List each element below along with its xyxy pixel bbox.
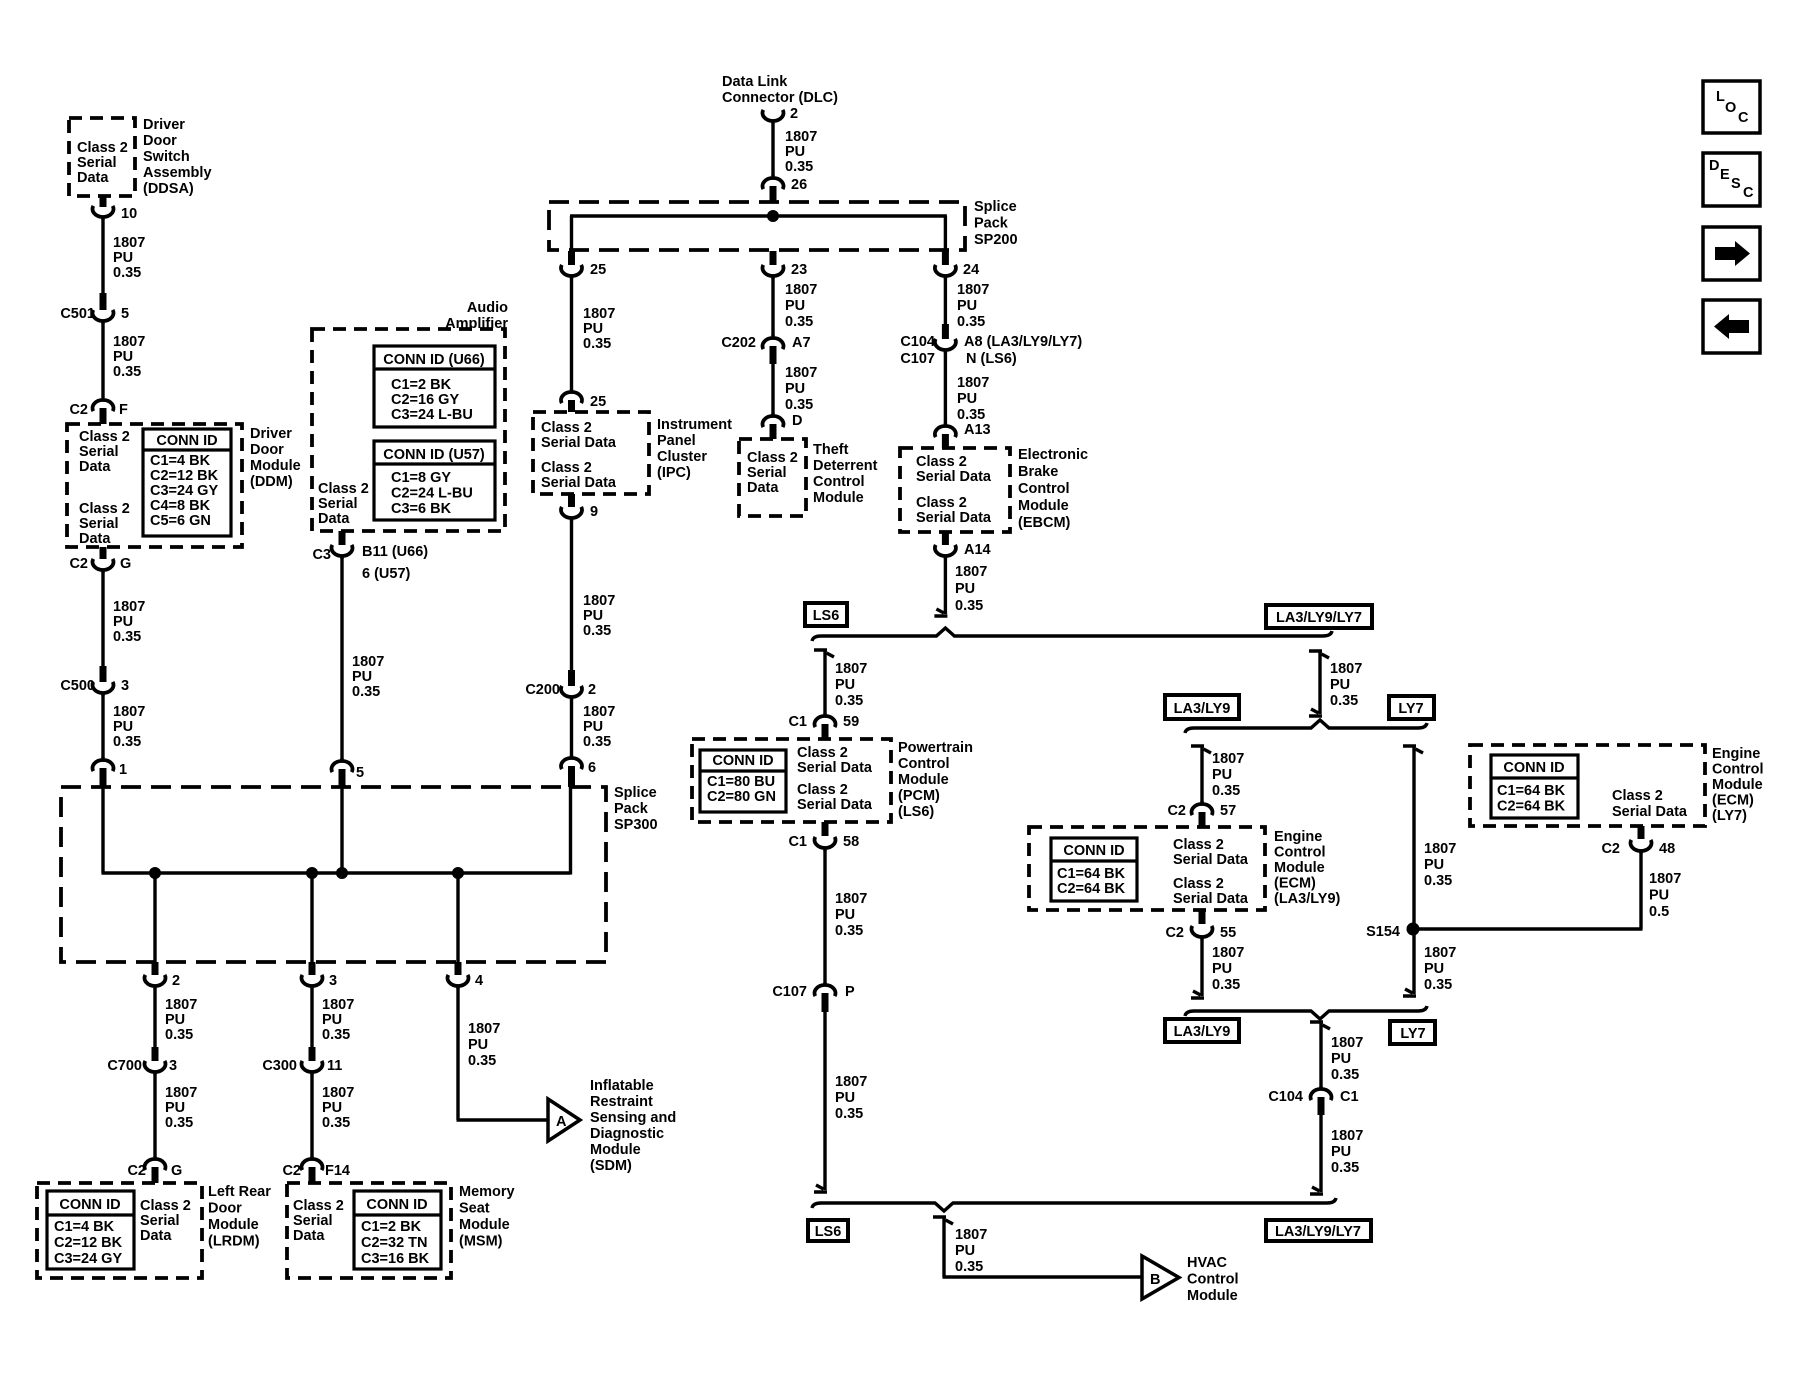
svg-text:C2: C2 (1601, 841, 1620, 857)
tag box LA3/LY9 (bottom) (1165, 1019, 1239, 1042)
svg-text:PU: PU (785, 144, 805, 160)
svg-text:(ECM): (ECM) (1274, 876, 1316, 892)
wire 1807 PU 0.35 from C1-58 to C107-P (823, 850, 826, 983)
svg-text:Module: Module (813, 490, 864, 506)
svg-text:Serial: Serial (77, 155, 117, 171)
tag box LA3/LY9 (mid) (1165, 695, 1239, 719)
svg-text:Module: Module (250, 458, 301, 474)
svg-text:0.35: 0.35 (113, 265, 141, 281)
svg-text:Class 2: Class 2 (1173, 837, 1224, 853)
svg-text:Module: Module (590, 1142, 641, 1158)
connector C2 pin F into DDM (93, 400, 114, 411)
svg-text:Serial: Serial (79, 444, 119, 460)
svg-text:0.35: 0.35 (352, 684, 380, 700)
svg-text:Instrument: Instrument (657, 417, 732, 433)
svg-text:PU: PU (785, 298, 805, 314)
svg-text:PU: PU (955, 581, 975, 597)
svg-text:Control: Control (898, 756, 950, 772)
svg-text:1807: 1807 (583, 306, 615, 322)
svg-text:26: 26 (791, 177, 807, 193)
svg-text:Electronic: Electronic (1018, 447, 1088, 463)
svg-text:0.5: 0.5 (1649, 904, 1669, 920)
svg-text:0.35: 0.35 (1424, 977, 1452, 993)
wire 1807 PU 0.35 from SP200-23 to C202 (771, 278, 774, 336)
svg-text:Serial: Serial (140, 1213, 180, 1229)
svg-text:Cluster: Cluster (657, 449, 707, 465)
svg-text:PU: PU (468, 1037, 488, 1053)
tag box LY7 (bottom) (1390, 1021, 1435, 1044)
svg-text:C2: C2 (69, 402, 88, 418)
svg-text:1807: 1807 (957, 375, 989, 391)
svg-text:C: C (1738, 110, 1749, 126)
svg-text:Class 2: Class 2 (916, 495, 967, 511)
connector pin 24 below SP200 (942, 251, 949, 265)
svg-text:N (LS6): N (LS6) (966, 351, 1017, 367)
connector pin A14 below EBCM (942, 532, 949, 545)
svg-text:1807: 1807 (352, 654, 384, 670)
svg-text:0.35: 0.35 (957, 314, 985, 330)
svg-text:Pack: Pack (614, 801, 649, 817)
svg-text:C300: C300 (262, 1058, 297, 1074)
connector C104/C107 pin A8/N (942, 324, 949, 339)
wire 1807 PU 0.35 from C700 to LRDM C2-G (153, 1074, 156, 1157)
svg-text:59: 59 (843, 714, 859, 730)
svg-text:C1=2 BK: C1=2 BK (361, 1219, 422, 1235)
svg-text:11: 11 (327, 1058, 342, 1074)
svg-text:A: A (556, 1114, 567, 1130)
svg-text:0.35: 0.35 (1331, 1160, 1359, 1176)
svg-text:LY7: LY7 (1400, 1026, 1425, 1042)
junction dot SP300 pin5 (336, 867, 348, 879)
svg-text:Module: Module (1187, 1288, 1238, 1304)
svg-text:1807: 1807 (785, 365, 817, 381)
wire end hook at brace (934, 609, 947, 616)
svg-text:1807: 1807 (1649, 871, 1681, 887)
svg-text:1807: 1807 (1424, 945, 1456, 961)
svg-text:0.35: 0.35 (113, 734, 141, 750)
svg-text:1807: 1807 (957, 282, 989, 298)
svg-text:(LRDM): (LRDM) (208, 1234, 260, 1250)
svg-text:PU: PU (322, 1100, 342, 1116)
connector pin 2 below SP300 (152, 962, 159, 975)
svg-text:(LS6): (LS6) (898, 804, 934, 820)
wire 1807 PU 0.35 from S154 to lower brace (1412, 929, 1415, 994)
svg-text:6: 6 (588, 760, 596, 776)
svg-text:HVAC: HVAC (1187, 1255, 1228, 1271)
svg-text:Serial Data: Serial Data (916, 469, 992, 485)
svg-text:4: 4 (475, 973, 483, 989)
module DDSA box (69, 118, 135, 196)
svg-text:Class 2: Class 2 (541, 460, 592, 476)
connector pin 26 into SP200 (763, 178, 784, 189)
connector pin 10 on DDSA (100, 196, 107, 207)
svg-text:F14: F14 (325, 1163, 350, 1179)
svg-text:58: 58 (843, 834, 859, 850)
svg-text:PU: PU (1649, 888, 1669, 904)
svg-text:S: S (1731, 176, 1741, 192)
connector DLC pin 2 (763, 110, 784, 121)
CONN ID (U57) table (374, 441, 495, 520)
connector C2 pin G into LRDM (145, 1159, 166, 1170)
CONN ID table of ECM LA3/LY9 (1051, 838, 1137, 901)
svg-text:0.35: 0.35 (165, 1027, 193, 1043)
svg-text:1807: 1807 (1330, 661, 1362, 677)
svg-text:1807: 1807 (1331, 1128, 1363, 1144)
svg-text:Data: Data (79, 531, 111, 547)
tag box LA3/LY9/LY7 (bottom) (1266, 1220, 1371, 1241)
svg-text:1807: 1807 (583, 704, 615, 720)
svg-text:C2=80 GN: C2=80 GN (707, 789, 776, 805)
svg-text:2: 2 (790, 106, 798, 122)
svg-text:1807: 1807 (835, 891, 867, 907)
svg-text:A7: A7 (792, 335, 811, 351)
wire 1807 PU 0.35 from C2-55 to lower brace (1200, 939, 1203, 996)
svg-text:(PCM): (PCM) (898, 788, 940, 804)
svg-text:Pack: Pack (974, 216, 1009, 232)
svg-text:1807: 1807 (113, 235, 145, 251)
svg-text:LA3/LY9: LA3/LY9 (1174, 1024, 1231, 1040)
svg-text:F: F (119, 402, 128, 418)
svg-text:Data: Data (140, 1228, 172, 1244)
brace merging LS6 and LA3/LY9/LY7 to HVAC (812, 1198, 1336, 1211)
module Theft Deterrent Control Module box (739, 439, 806, 516)
svg-text:PU: PU (322, 1012, 342, 1028)
wire 1807 PU 0.35 from SP200-25 to IPC pin 25 (570, 278, 573, 390)
svg-text:G: G (120, 556, 131, 572)
connector C200 pin 2 (568, 670, 575, 686)
svg-text:Serial: Serial (747, 465, 787, 481)
svg-text:PU: PU (1212, 767, 1232, 783)
svg-text:0.35: 0.35 (322, 1027, 350, 1043)
svg-text:(MSM): (MSM) (459, 1234, 503, 1250)
connector C2 pin F14 into MSM (302, 1159, 323, 1170)
svg-text:Engine: Engine (1712, 746, 1760, 762)
CONN ID table of PCM (700, 750, 786, 812)
svg-text:D: D (792, 413, 802, 429)
svg-text:Serial: Serial (79, 516, 119, 532)
svg-text:Door: Door (250, 442, 284, 458)
svg-text:0.35: 0.35 (1212, 783, 1240, 799)
svg-text:Serial Data: Serial Data (797, 760, 873, 776)
svg-text:PU: PU (785, 381, 805, 397)
svg-text:CONN ID: CONN ID (1063, 843, 1124, 859)
svg-text:C501: C501 (60, 306, 95, 322)
svg-text:1807: 1807 (835, 1074, 867, 1090)
CONN ID table of MSM (354, 1191, 441, 1269)
CONN ID (U66) table (374, 346, 495, 427)
svg-text:L: L (1716, 89, 1725, 105)
svg-text:1807: 1807 (468, 1021, 500, 1037)
svg-text:CONN ID: CONN ID (156, 433, 217, 449)
svg-text:C1=64 BK: C1=64 BK (1497, 783, 1566, 799)
svg-text:Class 2: Class 2 (916, 454, 967, 470)
splice S154 (1407, 923, 1420, 936)
svg-text:57: 57 (1220, 803, 1236, 819)
connector pin 6 into SP300 (561, 758, 582, 769)
svg-text:C104: C104 (1268, 1089, 1303, 1105)
svg-text:LA3/LY9/LY7: LA3/LY9/LY7 (1276, 610, 1362, 626)
connector pin A13 into EBCM (935, 426, 956, 437)
svg-text:0.35: 0.35 (785, 397, 813, 413)
svg-text:PU: PU (583, 719, 603, 735)
svg-text:CONN ID (U57): CONN ID (U57) (383, 447, 485, 463)
svg-text:C2: C2 (1167, 803, 1186, 819)
svg-text:C2: C2 (127, 1163, 146, 1179)
wire 1807 PU 0.35 from SP300-2 to C700 (153, 988, 156, 1047)
CONN ID table of LRDM (47, 1191, 134, 1269)
svg-text:Panel: Panel (657, 433, 696, 449)
svg-text:C3=24 L-BU: C3=24 L-BU (391, 407, 473, 423)
svg-text:25: 25 (590, 394, 606, 410)
svg-text:A8 (LA3/LY9/LY7): A8 (LA3/LY9/LY7) (964, 334, 1082, 350)
connector pin 25 into IPC (561, 392, 582, 403)
svg-text:1807: 1807 (785, 129, 817, 145)
module MSM box (287, 1183, 451, 1278)
svg-text:2: 2 (172, 973, 180, 989)
wire 1807 PU 0.35 from C104 to EBCM A13 (944, 352, 947, 424)
svg-text:Module: Module (1712, 777, 1763, 793)
svg-text:PU: PU (835, 1090, 855, 1106)
svg-text:C1=4 BK: C1=4 BK (150, 453, 211, 469)
junction dot SP300 pin2 (149, 867, 161, 879)
svg-text:Class 2: Class 2 (747, 450, 798, 466)
SP300 internal wire pin5 (340, 787, 343, 873)
wire 1807 PU 0.35 from IPC-9 to C200 (570, 520, 573, 670)
CONN ID table of DDM (143, 429, 231, 536)
svg-text:PU: PU (352, 669, 372, 685)
connector pin 9 below IPC (568, 494, 575, 507)
svg-text:0.35: 0.35 (955, 1259, 983, 1275)
svg-text:24: 24 (963, 262, 979, 278)
wire 1807 PU 0.35 from DDSA-10 to C501 (101, 219, 104, 293)
svg-text:A13: A13 (964, 422, 991, 438)
junction dot SP200 center (767, 210, 779, 222)
svg-text:Class 2: Class 2 (77, 140, 128, 156)
svg-text:0.35: 0.35 (1331, 1067, 1359, 1083)
svg-text:CONN ID: CONN ID (366, 1197, 427, 1213)
module IPC box (533, 412, 649, 494)
svg-text:LS6: LS6 (815, 1224, 842, 1240)
wire 1807 PU 0.35 from top brace to LA3-LY9/LY7 brace (1309, 651, 1329, 658)
svg-text:Data Link: Data Link (722, 74, 788, 90)
svg-text:C104: C104 (900, 334, 935, 350)
svg-text:C1: C1 (788, 714, 807, 730)
svg-text:PU: PU (113, 719, 133, 735)
svg-text:C700: C700 (107, 1058, 142, 1074)
svg-text:C1=8 GY: C1=8 GY (391, 470, 451, 486)
svg-text:C5=6 GN: C5=6 GN (150, 513, 211, 529)
wire 1807 PU 0.35 from C107-P to bottom brace (823, 1012, 826, 1190)
svg-text:1807: 1807 (785, 282, 817, 298)
svg-text:3: 3 (169, 1058, 177, 1074)
svg-text:D: D (1709, 158, 1719, 174)
svg-text:S154: S154 (1366, 924, 1400, 940)
module PCM box (692, 739, 891, 822)
CONN ID table of ECM LY7 (1491, 755, 1578, 818)
svg-text:0.35: 0.35 (1330, 693, 1358, 709)
svg-text:0.35: 0.35 (955, 598, 983, 614)
wire 1807 PU 0.5 from C2-48 to S154 (1639, 853, 1642, 929)
svg-text:9: 9 (590, 504, 598, 520)
svg-text:Connector (DLC): Connector (DLC) (722, 90, 838, 106)
svg-text:0.35: 0.35 (1212, 977, 1240, 993)
svg-text:Serial Data: Serial Data (797, 797, 873, 813)
svg-text:1807: 1807 (322, 997, 354, 1013)
connector pin 3 below SP300 (309, 962, 316, 975)
svg-text:0.35: 0.35 (468, 1053, 496, 1069)
wire 1807 PU 0.35 from brace to S154 (1403, 746, 1423, 753)
svg-text:Sensing and: Sensing and (590, 1110, 676, 1126)
svg-text:Amplifier: Amplifier (445, 316, 508, 332)
nav button prev arrow (1703, 300, 1760, 353)
svg-text:PU: PU (1330, 677, 1350, 693)
svg-text:C107: C107 (900, 351, 935, 367)
svg-text:C2: C2 (282, 1163, 301, 1179)
connector C2 pin G below DDM (100, 547, 107, 559)
svg-text:C2=64 BK: C2=64 BK (1057, 881, 1126, 897)
svg-text:1807: 1807 (835, 661, 867, 677)
svg-text:C2=12 BK: C2=12 BK (54, 1235, 123, 1251)
svg-text:Control: Control (1274, 845, 1326, 861)
svg-text:1807: 1807 (165, 997, 197, 1013)
module Audio Amplifier box (312, 329, 505, 531)
svg-text:Powertrain: Powertrain (898, 740, 973, 756)
svg-text:Serial Data: Serial Data (1612, 804, 1688, 820)
svg-text:Control: Control (1018, 481, 1070, 497)
svg-text:C4=8 BK: C4=8 BK (150, 498, 211, 514)
connector C700 pin 3 (152, 1047, 159, 1061)
wire 1807 PU 0.35 from C200 to SP300 pin 6 (570, 699, 573, 756)
svg-text:O: O (1725, 100, 1736, 116)
svg-text:0.35: 0.35 (1424, 873, 1452, 889)
svg-text:PU: PU (957, 391, 977, 407)
wire 1807 PU 0.35 from SP300-4 to SDM (456, 988, 459, 1120)
svg-text:C107: C107 (772, 984, 807, 1000)
wire 1807 PU 0.35 from brace to HVAC (933, 1217, 953, 1224)
svg-text:Class 2: Class 2 (797, 745, 848, 761)
svg-text:C1: C1 (1340, 1089, 1359, 1105)
svg-text:C202: C202 (721, 335, 756, 351)
svg-text:C3=24 GY: C3=24 GY (54, 1251, 122, 1267)
svg-text:0.35: 0.35 (583, 734, 611, 750)
svg-text:0.35: 0.35 (583, 623, 611, 639)
svg-text:Class 2: Class 2 (797, 782, 848, 798)
nav button LOC (1703, 81, 1760, 133)
svg-text:CONN ID: CONN ID (59, 1197, 120, 1213)
module ECM (LY7) box (1470, 745, 1705, 826)
brace grouping LA3/LY9 and LY7 branches (1185, 720, 1427, 733)
svg-text:Data: Data (79, 459, 111, 475)
svg-text:C1=2 BK: C1=2 BK (391, 377, 452, 393)
svg-text:PU: PU (957, 298, 977, 314)
svg-text:Class 2: Class 2 (293, 1198, 344, 1214)
svg-text:0.35: 0.35 (583, 336, 611, 352)
svg-text:Class 2: Class 2 (140, 1198, 191, 1214)
svg-text:LY7: LY7 (1398, 701, 1423, 717)
svg-text:3: 3 (329, 973, 337, 989)
svg-text:23: 23 (791, 262, 807, 278)
svg-text:PU: PU (113, 250, 133, 266)
svg-text:0.35: 0.35 (835, 923, 863, 939)
svg-text:LA3/LY9: LA3/LY9 (1174, 701, 1231, 717)
svg-text:0.35: 0.35 (165, 1115, 193, 1131)
svg-text:1807: 1807 (113, 334, 145, 350)
SP300 internal wire pin4 (456, 873, 459, 962)
svg-text:(LA3/LY9): (LA3/LY9) (1274, 891, 1341, 907)
svg-text:Serial Data: Serial Data (1173, 852, 1249, 868)
svg-text:(DDM): (DDM) (250, 474, 293, 490)
svg-text:10: 10 (121, 206, 137, 222)
svg-text:5: 5 (356, 765, 364, 781)
wire 1807 PU 0.35 from SP300-3 to C300 (310, 988, 313, 1047)
splice pack SP200 box (549, 202, 965, 250)
svg-text:Data: Data (318, 511, 350, 527)
svg-text:PU: PU (583, 321, 603, 337)
svg-text:C2: C2 (69, 556, 88, 572)
module ECM (LA3/LY9) box (1029, 827, 1265, 910)
svg-text:C1=80 BU: C1=80 BU (707, 774, 775, 790)
wire 1807 PU 0.35 from C3 to SP300 pin 5 (340, 558, 343, 759)
svg-text:Switch: Switch (143, 149, 190, 165)
svg-text:Diagnostic: Diagnostic (590, 1126, 664, 1142)
module EBCM box (900, 448, 1010, 532)
nav button next arrow (1703, 227, 1760, 280)
wire 1807 PU 0.35 from C500 to SP300 pin 1 (101, 695, 104, 758)
svg-text:Data: Data (747, 480, 779, 496)
connector C104 pin C1 (1311, 1089, 1332, 1100)
svg-text:Class 2: Class 2 (318, 481, 369, 497)
svg-text:1807: 1807 (165, 1085, 197, 1101)
svg-text:Control: Control (1712, 762, 1764, 778)
svg-text:(ECM): (ECM) (1712, 793, 1754, 809)
wire 1807 PU 0.35 from SP200-24 to C104/C107 (944, 278, 947, 330)
svg-text:(IPC): (IPC) (657, 465, 691, 481)
svg-text:Module: Module (459, 1217, 510, 1233)
svg-text:0.35: 0.35 (835, 1106, 863, 1122)
wire 1807 PU 0.35 from C300 to MSM C2-F14 (310, 1074, 313, 1157)
svg-text:Splice: Splice (974, 199, 1017, 215)
connector C2 pin 57 into ECM LA3/LY9 (1191, 804, 1212, 815)
svg-text:1807: 1807 (955, 564, 987, 580)
svg-text:PU: PU (835, 677, 855, 693)
svg-text:1807: 1807 (1212, 751, 1244, 767)
svg-text:Audio: Audio (467, 300, 508, 316)
svg-text:1807: 1807 (1424, 841, 1456, 857)
connector pin 1 into SP300 (93, 760, 114, 771)
svg-text:A14: A14 (964, 542, 991, 558)
brace grouping LS6 and LA3/LY9/LY7 branches (812, 628, 1332, 641)
svg-text:Theft: Theft (813, 442, 849, 458)
wire 1807 PU 0.35 from brace to PCM C1-59 (814, 650, 834, 657)
svg-text:6 (U57): 6 (U57) (362, 566, 411, 582)
svg-text:Class 2: Class 2 (541, 420, 592, 436)
junction dot SP300 pin3 (306, 867, 318, 879)
svg-text:SP300: SP300 (614, 817, 658, 833)
svg-text:PU: PU (165, 1100, 185, 1116)
svg-text:Engine: Engine (1274, 829, 1322, 845)
svg-text:Door: Door (208, 1201, 242, 1217)
wire 1807 PU 0.35 from C202 to Theft pin D (771, 364, 774, 414)
svg-text:1807: 1807 (113, 599, 145, 615)
svg-text:LS6: LS6 (813, 608, 840, 624)
svg-text:(SDM): (SDM) (590, 1158, 632, 1174)
svg-text:Module: Module (208, 1217, 259, 1233)
svg-text:C2=12 BK: C2=12 BK (150, 468, 219, 484)
svg-text:0.35: 0.35 (835, 693, 863, 709)
svg-text:B: B (1150, 1272, 1160, 1288)
svg-text:Serial Data: Serial Data (916, 510, 992, 526)
svg-text:C2=32 TN: C2=32 TN (361, 1235, 428, 1251)
